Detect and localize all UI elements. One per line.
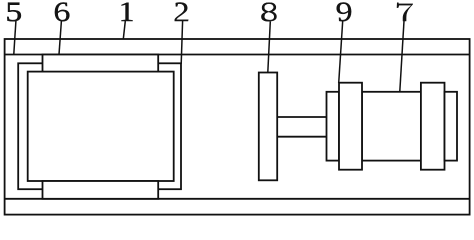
label 9: [337, 2, 351, 21]
leader line 8: [268, 22, 271, 73]
left end cap (part 9): [339, 83, 362, 170]
leader line 7: [400, 21, 404, 92]
housing bottom plate inner line: [5, 198, 470, 200]
label 8: [261, 3, 276, 22]
top damper block (part 6): [43, 55, 159, 72]
vertical plate (part 8): [259, 73, 277, 181]
leader line 2: [181, 21, 182, 64]
right end cap: [421, 83, 445, 170]
leader line 6: [59, 21, 61, 54]
leader line 1: [123, 21, 125, 39]
label 1: [122, 3, 133, 21]
motor body (part 7): [362, 92, 421, 161]
shaft bottom line: [277, 136, 326, 138]
label 7: [397, 3, 413, 21]
housing top plate inner line (part 1): [5, 54, 470, 56]
label 6: [55, 2, 69, 21]
label 2: [175, 2, 188, 21]
inner box inner wall: [28, 72, 174, 181]
right stub: [445, 92, 458, 161]
bottom damper block: [43, 181, 159, 199]
shaft top line: [277, 116, 326, 118]
leader line 9: [339, 21, 343, 83]
leader line 5: [14, 21, 16, 54]
left stub: [327, 92, 340, 161]
inner box outer wall (part 2): [18, 63, 181, 189]
label 5: [7, 3, 21, 22]
housing outer rect: [5, 39, 470, 215]
